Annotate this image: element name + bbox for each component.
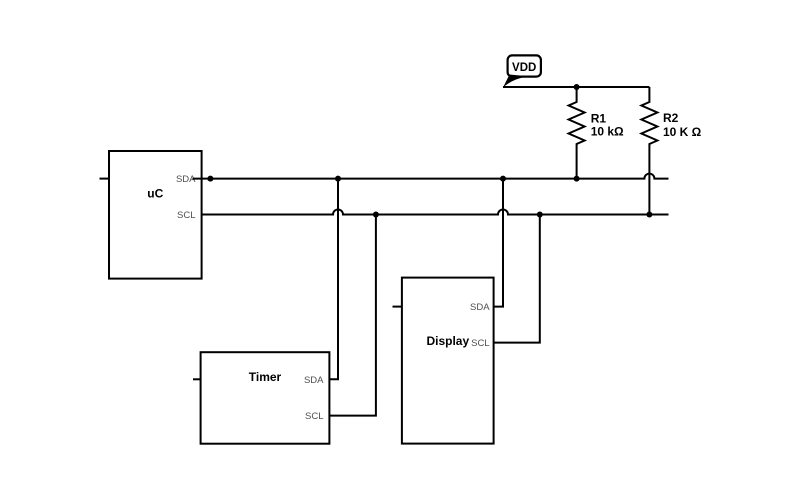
svg-text:SCL: SCL <box>177 210 195 221</box>
svg-text:SDA: SDA <box>470 302 490 313</box>
resistor R1 <box>569 87 585 179</box>
Display left pin stub <box>393 306 402 308</box>
node uC SDA junction <box>207 176 213 182</box>
svg-text:SDA: SDA <box>304 375 324 386</box>
Timer left pin stub <box>193 378 201 380</box>
svg-text:SCL: SCL <box>471 338 489 349</box>
svg-text:Display: Display <box>426 334 469 348</box>
resistor R2 <box>641 87 657 215</box>
node VDD-R1 junction <box>574 84 580 90</box>
node Display SCL junction <box>537 212 543 218</box>
wire Timer SCL drop <box>329 215 376 416</box>
R2 value label <box>663 111 702 139</box>
wire Display SCL drop <box>494 215 540 343</box>
timer block <box>201 352 330 444</box>
display block <box>402 278 494 444</box>
R1 value label <box>591 112 624 139</box>
svg-text:10 kΩ: 10 kΩ <box>591 125 624 139</box>
wire VDD rail <box>503 86 649 88</box>
wire SDA bus with hop over R2 <box>193 174 669 179</box>
svg-text:10 K Ω: 10 K Ω <box>663 125 702 139</box>
node Timer SDA junction <box>335 176 341 182</box>
node Display SDA junction <box>500 176 506 182</box>
microcontroller uC <box>109 151 202 279</box>
svg-text:SCL: SCL <box>305 411 323 422</box>
wire Timer SDA drop <box>329 179 338 380</box>
svg-text:VDD: VDD <box>512 62 536 74</box>
svg-text:uC: uC <box>147 187 163 201</box>
svg-text:R1: R1 <box>591 112 607 126</box>
uC left pin stub <box>100 178 110 180</box>
svg-text:SDA: SDA <box>176 174 196 185</box>
node Timer SCL junction <box>373 212 379 218</box>
node R2 SCL junction <box>646 212 652 218</box>
wire Display SDA drop <box>494 179 503 307</box>
node R1 SDA junction <box>574 176 580 182</box>
wire SCL bus with hops over Timer SDA and Display SDA <box>202 210 669 215</box>
VDD power flag <box>503 55 541 87</box>
svg-text:R2: R2 <box>663 111 679 125</box>
svg-text:Timer: Timer <box>249 370 282 384</box>
